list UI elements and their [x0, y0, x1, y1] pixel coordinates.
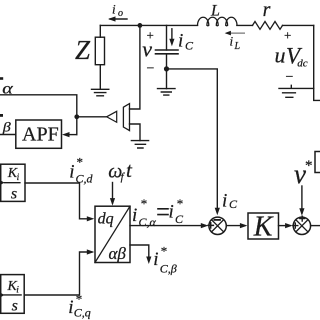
- svg-text:i: i: [230, 34, 234, 49]
- svg-text:s: s: [11, 186, 17, 203]
- svg-text:*: *: [305, 158, 313, 174]
- svg-text:i: i: [132, 205, 137, 226]
- svg-text:K: K: [253, 212, 274, 243]
- svg-text:−: −: [286, 70, 294, 85]
- svg-text:C,q: C,q: [74, 306, 91, 320]
- svg-text:i: i: [169, 202, 174, 223]
- svg-text:i: i: [222, 190, 227, 211]
- svg-text:β: β: [2, 120, 11, 135]
- svg-text:*: *: [161, 244, 168, 259]
- svg-text:*: *: [177, 196, 184, 211]
- svg-text:i: i: [68, 297, 73, 318]
- svg-text:i: i: [178, 31, 183, 52]
- svg-text:v: v: [142, 36, 152, 61]
- svg-text:*: *: [76, 292, 83, 307]
- svg-text:C: C: [229, 197, 238, 211]
- svg-text:i: i: [17, 173, 20, 183]
- svg-text:*: *: [141, 196, 148, 211]
- svg-text:C,α: C,α: [139, 215, 157, 229]
- svg-text:dq: dq: [98, 211, 114, 228]
- svg-text:C: C: [175, 212, 184, 226]
- svg-text:i: i: [153, 249, 158, 270]
- svg-text:Z: Z: [75, 35, 91, 65]
- svg-text:+: +: [284, 27, 291, 42]
- svg-text:*: *: [77, 155, 84, 170]
- svg-text:s: s: [12, 297, 18, 314]
- svg-text:C,d: C,d: [76, 172, 94, 186]
- svg-text:i: i: [69, 162, 74, 183]
- svg-text:i: i: [16, 286, 19, 296]
- svg-text:L: L: [234, 41, 241, 52]
- svg-text:α: α: [2, 80, 13, 97]
- svg-text:αβ: αβ: [109, 244, 127, 263]
- svg-text:o: o: [118, 8, 123, 19]
- svg-text:u: u: [275, 43, 286, 68]
- svg-text:−: −: [147, 62, 155, 77]
- svg-text:r: r: [263, 0, 271, 21]
- svg-text:dc: dc: [297, 58, 308, 70]
- svg-text:i: i: [112, 2, 116, 17]
- svg-text:L: L: [210, 3, 220, 20]
- svg-text:C,β: C,β: [160, 262, 177, 276]
- svg-text:C: C: [185, 39, 194, 53]
- svg-text:APF: APF: [22, 123, 59, 145]
